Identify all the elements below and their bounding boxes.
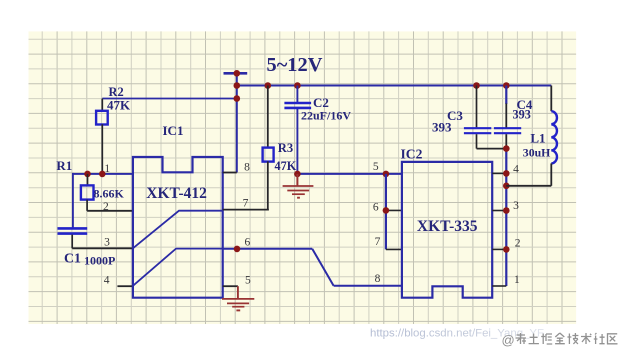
wire R2 lower lead down to node 1 bbox=[101, 124, 103, 174]
junction dot R2 bottom bbox=[99, 171, 106, 178]
resistor R1 bbox=[81, 185, 94, 199]
capacitor C4 bbox=[494, 128, 521, 133]
junction dot rail/C4 bbox=[503, 82, 510, 89]
svg-text:3: 3 bbox=[104, 237, 110, 249]
junction dot C3/C4 bottoms bbox=[503, 145, 510, 152]
svg-text:6: 6 bbox=[373, 202, 379, 214]
watermark glyph she bbox=[594, 333, 605, 344]
junction dot rail/C2 bbox=[294, 82, 301, 89]
svg-text:IC1: IC1 bbox=[163, 123, 184, 138]
junction dot rail/R3 bbox=[265, 82, 272, 89]
junction dot rail/stub bbox=[234, 82, 241, 89]
wire C1 lower lead bbox=[71, 235, 73, 249]
junction dot L1 return bbox=[503, 183, 510, 190]
wire L1 lower lead bbox=[550, 163, 552, 185]
wire C1 upper lead bbox=[72, 173, 74, 228]
wire IC1 pin 5 stub bbox=[223, 285, 238, 287]
ground symbol at IC1 pin 5 bbox=[222, 299, 254, 311]
wire C4 upper lead blue part bbox=[505, 86, 507, 105]
wire IC1 pin 3 horizontal bbox=[72, 247, 133, 249]
wire C2 node to IC2 pin 5 bbox=[297, 173, 402, 175]
wire IC1 pin 1 horizontal bbox=[73, 173, 133, 175]
ground lead below C2 bbox=[296, 174, 298, 186]
watermark glyph jue bbox=[541, 334, 552, 345]
junction dot C2/ground/pin5 bbox=[294, 171, 301, 178]
svg-text:XKT-335: XKT-335 bbox=[417, 218, 478, 235]
svg-text:47K: 47K bbox=[275, 159, 297, 173]
wire C3 bottom link to C4 bbox=[477, 148, 507, 150]
svg-text:5: 5 bbox=[245, 275, 251, 287]
wire IC1 pin 8 stub bbox=[223, 172, 237, 174]
svg-text:R1: R1 bbox=[56, 158, 72, 173]
wire vertical IC2 pins 5-6-7 bbox=[385, 174, 387, 250]
resistor R2 bbox=[96, 111, 108, 125]
junction dot on pin 6 wire bbox=[234, 246, 241, 253]
ground symbol at C2 bbox=[283, 186, 314, 198]
svg-text:8.66K: 8.66K bbox=[94, 186, 125, 200]
junction dot rail/R2 wire bbox=[234, 95, 241, 102]
svg-text:7: 7 bbox=[243, 197, 249, 209]
svg-text:1: 1 bbox=[514, 274, 520, 286]
wire IC1 pin 7 to R3 bottom bbox=[223, 209, 269, 211]
svg-text:1000P: 1000P bbox=[84, 254, 115, 268]
wire R2 top to power stub bbox=[102, 98, 237, 100]
wire power rail bbox=[237, 85, 552, 87]
wire IC2 pin 3 stub bbox=[492, 210, 506, 212]
svg-text:7: 7 bbox=[375, 236, 381, 248]
junction dot pin 4 bbox=[503, 170, 510, 177]
svg-text:C1: C1 bbox=[64, 250, 81, 265]
wire C4 upper lead dark part bbox=[505, 104, 507, 128]
svg-text:393: 393 bbox=[513, 108, 531, 122]
svg-text:8: 8 bbox=[375, 273, 381, 285]
op-amp U IC2 XKT-335 outline bbox=[402, 162, 492, 298]
wire IC2 pin 4 stub bbox=[492, 172, 506, 174]
svg-text:4: 4 bbox=[104, 275, 110, 287]
junction dot R1 top bbox=[84, 171, 91, 178]
watermark glyph shu bbox=[581, 333, 591, 344]
junction dot IC2 pin5/branch bbox=[383, 171, 390, 178]
svg-text:393: 393 bbox=[432, 119, 452, 134]
wire IC2 pin 6 stub bbox=[386, 209, 402, 211]
IC1 internal link pin4 to pin6 bbox=[133, 249, 223, 286]
watermark glyph tu bbox=[529, 334, 539, 344]
svg-text:3: 3 bbox=[513, 200, 519, 212]
svg-text:5~12V: 5~12V bbox=[267, 54, 323, 76]
svg-text:30uH: 30uH bbox=[523, 145, 551, 159]
svg-text:@: @ bbox=[502, 332, 515, 347]
junction dot rail/C3 bbox=[473, 82, 480, 89]
watermark glyph ji bbox=[567, 333, 578, 344]
svg-text:R3: R3 bbox=[278, 141, 293, 155]
op-amp U IC1 XKT-412 outline bbox=[133, 157, 223, 298]
svg-text:L1: L1 bbox=[530, 130, 545, 145]
wire vertical power stub to IC1 pin 8 bbox=[236, 73, 238, 172]
wire C2 upper lead bbox=[296, 86, 298, 103]
junction dot pin 2 bbox=[503, 246, 510, 253]
wire IC2 pin 7 stub bbox=[386, 248, 402, 250]
wire IC2 pin 2 stub bbox=[492, 248, 506, 250]
svg-text:8: 8 bbox=[244, 162, 250, 174]
svg-text:1: 1 bbox=[104, 163, 110, 175]
capacitor C2 bbox=[284, 103, 311, 108]
capacitor C3 bbox=[464, 128, 491, 133]
wire C4 lower vertical bus to IC2 pins bbox=[505, 149, 507, 286]
wire R3 lower lead to pin 7 bbox=[267, 161, 269, 210]
watermark glyph jin bbox=[555, 333, 565, 344]
svg-text:IC2: IC2 bbox=[401, 147, 423, 162]
svg-text:22uF/16V: 22uF/16V bbox=[301, 108, 351, 122]
wire pin 5 ground lead bbox=[237, 286, 239, 299]
watermark glyph xi bbox=[516, 333, 527, 344]
wire R3 upper lead bbox=[267, 86, 269, 149]
svg-text:2: 2 bbox=[515, 238, 521, 250]
wire IC2 pin 1 stub bbox=[492, 285, 506, 287]
resistor R3 bbox=[263, 148, 274, 162]
wire C3 upper lead bbox=[476, 86, 478, 128]
svg-text:6: 6 bbox=[245, 236, 251, 248]
power terminal bar bbox=[224, 72, 248, 75]
wire IC1 pin 4 stub bbox=[117, 285, 132, 287]
IC1 internal link pin3 to pin7 bbox=[133, 211, 223, 249]
wire R2 upper lead bbox=[101, 99, 103, 112]
wire C3 lower lead bbox=[476, 134, 478, 148]
wire IC1 pin 6 horizontal bbox=[223, 248, 313, 250]
wire C4 lower lead dark part bbox=[505, 134, 507, 148]
inductor L1 bbox=[551, 111, 557, 163]
junction dot pin 3 bbox=[503, 207, 510, 214]
svg-text:XKT-412: XKT-412 bbox=[146, 185, 207, 202]
junction dot IC2 pin 6 bbox=[383, 207, 390, 214]
junction dot power bar bbox=[234, 70, 241, 77]
wire L1 upper lead from rail bbox=[550, 86, 552, 112]
svg-text:5: 5 bbox=[373, 161, 379, 173]
watermark glyph qu bbox=[608, 334, 618, 344]
svg-text:47K: 47K bbox=[107, 97, 131, 112]
wire R1 lower lead bbox=[86, 200, 88, 211]
wire L1 return to pin bus bbox=[506, 185, 551, 187]
svg-text:4: 4 bbox=[513, 164, 519, 176]
wire R1 upper lead bbox=[87, 174, 89, 186]
wire IC1 pin 2 horizontal bbox=[87, 210, 133, 212]
capacitor C1 bbox=[58, 228, 88, 233]
wire to IC2 pin 8 bbox=[334, 285, 402, 287]
svg-text:2: 2 bbox=[103, 201, 109, 213]
wire C2 lower lead bbox=[296, 109, 298, 174]
wire diagonal pin6 run down bbox=[312, 249, 333, 286]
